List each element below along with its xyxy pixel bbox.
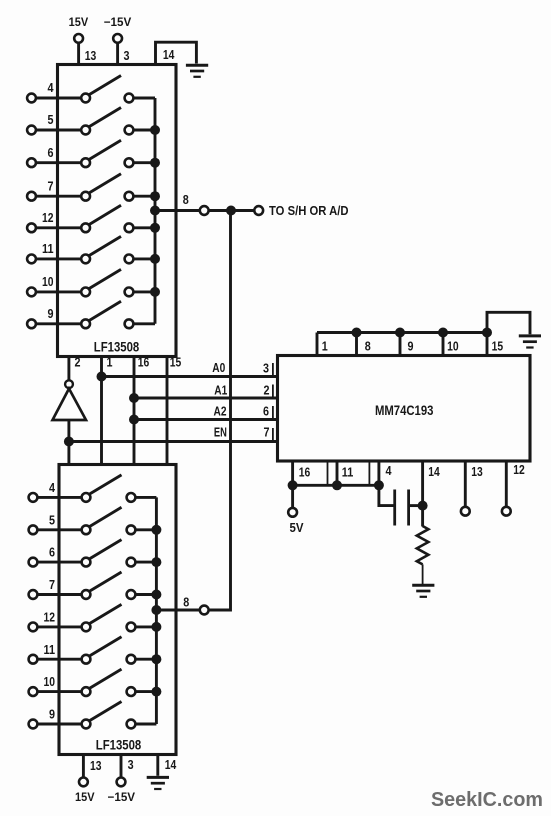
junction on U2 output bus xyxy=(151,654,161,664)
junction EN at inverter xyxy=(64,437,74,447)
svg-text:12: 12 xyxy=(513,462,525,477)
switch pole U1 channel 10 xyxy=(81,288,90,297)
svg-text:TO S/H OR A/D: TO S/H OR A/D xyxy=(269,203,349,218)
svg-text:16: 16 xyxy=(299,465,311,480)
U4 pin 11 stub xyxy=(336,461,339,485)
ground (U2 pin 14) xyxy=(147,777,169,789)
svg-text:15V: 15V xyxy=(69,15,89,29)
terminal 15V (U1 pin 13) xyxy=(74,34,83,43)
wire net A1 xyxy=(134,397,278,400)
wire U2 pin 8 output xyxy=(156,609,200,612)
svg-text:15V: 15V xyxy=(75,790,95,804)
wire U4 supply bus xyxy=(293,484,379,487)
switch pole U1 channel 7 xyxy=(81,192,90,201)
wire resistor to ground xyxy=(422,564,424,584)
wire U1 channel 10 input xyxy=(36,290,82,293)
wire U1 pin 1 to U2 pin 1 xyxy=(100,357,103,465)
junction on U2 output bus xyxy=(151,590,161,600)
wire U1 channel 9 to output bus xyxy=(133,322,155,325)
wire U2 channel 6 to output bus xyxy=(135,561,156,564)
svg-text:10: 10 xyxy=(44,674,56,689)
U4 pin 6 tick xyxy=(272,406,274,419)
terminal −15V (U2 pin 3) xyxy=(117,778,126,787)
switch throw U1 channel 9 xyxy=(125,319,134,328)
switch pole U1 channel 9 xyxy=(81,319,90,328)
switch arm U2 channel 9 xyxy=(89,702,121,721)
terminal U4 pin 13 xyxy=(461,507,470,516)
switch throw U2 channel 7 xyxy=(127,590,136,599)
U2 channel 12 input terminal xyxy=(29,623,38,632)
svg-text:5V: 5V xyxy=(290,520,304,535)
junction U4 pin 8 xyxy=(352,328,362,338)
wire U2 channel 4 to output bus xyxy=(135,496,156,499)
wire U2 output bus xyxy=(155,497,158,724)
svg-text:9: 9 xyxy=(408,339,414,354)
wire U4 pin 15 to ground xyxy=(487,312,530,334)
switch arm U2 channel 5 xyxy=(89,507,121,526)
U2 channel 5 input terminal xyxy=(29,525,38,534)
switch throw U1 channel 6 xyxy=(125,158,134,167)
switch throw U1 channel 5 xyxy=(125,126,134,135)
terminal U4 pin 12 xyxy=(502,507,511,516)
wire output to terminal xyxy=(209,209,255,212)
node on output wire xyxy=(200,206,209,215)
terminal 5V xyxy=(288,508,297,517)
switch arm U1 channel 9 xyxy=(89,301,121,320)
junction on U1 output bus xyxy=(150,223,160,233)
svg-text:8: 8 xyxy=(183,192,189,207)
U4 pin 3 tick xyxy=(272,363,274,376)
switch pole U2 channel 4 xyxy=(82,493,91,502)
U2 channel 6 input terminal xyxy=(29,558,38,567)
switch pole U1 channel 4 xyxy=(81,94,90,103)
wire U4 top bus xyxy=(317,331,487,334)
wire U1 channel 7 input xyxy=(36,195,82,198)
svg-text:16: 16 xyxy=(138,354,150,369)
switch throw U1 channel 10 xyxy=(125,288,134,297)
svg-text:EN: EN xyxy=(214,425,227,440)
svg-text:4: 4 xyxy=(48,80,55,95)
junction A2 tap xyxy=(129,415,139,425)
junction on U2 output bus xyxy=(151,557,161,567)
junction on U1 output bus xyxy=(150,125,160,135)
U1 channel 4 input terminal xyxy=(27,94,36,103)
svg-text:6: 6 xyxy=(263,404,269,419)
svg-text:3: 3 xyxy=(128,757,134,772)
junction on U2 output bus xyxy=(151,687,161,697)
U2 channel 11 input terminal xyxy=(29,655,38,664)
wire U2 channel 11 input xyxy=(37,658,82,661)
U1 pin 3 stub xyxy=(116,43,119,66)
switch arm U2 channel 7 xyxy=(89,572,121,591)
junction on U2 output bus xyxy=(151,525,161,535)
switch arm U1 channel 10 xyxy=(89,269,121,288)
switch arm U1 channel 6 xyxy=(89,140,121,159)
svg-text:A2: A2 xyxy=(214,403,227,418)
svg-text:15: 15 xyxy=(492,339,504,354)
U4 pin 14 stub xyxy=(421,461,424,527)
svg-text:3: 3 xyxy=(124,48,130,63)
switch pole U1 channel 12 xyxy=(81,223,90,232)
U1 channel 9 input terminal xyxy=(27,319,36,328)
wire U1 pin 16 to U2 pin 16 xyxy=(133,357,136,465)
svg-text:9: 9 xyxy=(49,707,55,722)
junction A0 tap xyxy=(97,372,107,382)
U4 pin 10 stub xyxy=(442,333,445,358)
U4 unused pin tick b xyxy=(368,463,370,486)
switch throw U2 channel 5 xyxy=(127,525,136,534)
junction U2 output tap xyxy=(151,605,161,615)
U4 pin 2 tick xyxy=(272,385,274,398)
switch pole U2 channel 6 xyxy=(82,558,91,567)
wire U1 channel 5 to output bus xyxy=(133,129,155,132)
svg-text:−15V: −15V xyxy=(104,15,132,29)
svg-text:1: 1 xyxy=(322,339,328,354)
wire U2 channel 6 input xyxy=(37,561,82,564)
switch pole U2 channel 5 xyxy=(82,525,91,534)
switch throw U1 channel 12 xyxy=(125,223,134,232)
U2 channel 10 input terminal xyxy=(29,687,38,696)
wire U2 channel 9 input xyxy=(37,723,82,726)
wire U2 channel 10 input xyxy=(37,690,82,693)
U2 channel 7 input terminal xyxy=(29,590,38,599)
wire net A0 xyxy=(102,375,278,378)
wire U1 channel 6 input xyxy=(36,161,82,164)
junction U4 pin 4 xyxy=(374,480,384,490)
ground (U4 pin 15) xyxy=(519,336,541,348)
junction on U1 output bus xyxy=(150,287,160,297)
svg-text:SeekIC.com: SeekIC.com xyxy=(431,788,543,811)
wire net EN xyxy=(69,440,278,443)
svg-text:MM74C193: MM74C193 xyxy=(375,402,434,418)
svg-text:7: 7 xyxy=(48,178,54,193)
junction on U1 output bus xyxy=(150,158,160,168)
U4 unused pin tick a xyxy=(327,463,329,486)
mux IC U2 LF13508 (lower) body xyxy=(59,465,176,755)
switch throw U1 channel 11 xyxy=(125,255,134,264)
U2 channel 9 input terminal xyxy=(29,720,38,729)
switch pole U2 channel 11 xyxy=(82,655,91,664)
wire U2 channel 9 to output bus xyxy=(135,723,156,726)
wire U2 channel 12 to output bus xyxy=(135,625,156,628)
svg-text:6: 6 xyxy=(48,145,54,160)
U1 channel 12 input terminal xyxy=(27,223,36,232)
wire U1 pin 14 to ground xyxy=(156,42,197,66)
switch throw U2 channel 4 xyxy=(127,493,136,502)
inverter U3 bubble xyxy=(65,380,73,388)
switch pole U2 channel 12 xyxy=(82,623,91,632)
U1 channel 10 input terminal xyxy=(27,288,36,297)
svg-text:10: 10 xyxy=(42,274,54,289)
wire U1 pin 8 output xyxy=(155,209,200,212)
capacitor C1 left plate xyxy=(393,490,396,526)
svg-text:LF13508: LF13508 xyxy=(94,339,140,355)
wire capacitor to pin 14 xyxy=(409,504,423,507)
svg-text:9: 9 xyxy=(48,306,54,321)
wire lower mux output to S/H node xyxy=(209,211,231,611)
junction on U1 output bus xyxy=(150,254,160,264)
wire net A2 xyxy=(134,418,278,421)
wire U1 channel 7 to output bus xyxy=(133,195,155,198)
wire U1 channel 5 input xyxy=(36,129,82,132)
switch arm U1 channel 7 xyxy=(89,174,121,193)
junction U4 pin 10 xyxy=(438,328,448,338)
junction A1 tap xyxy=(129,393,139,403)
wire U2 channel 11 to output bus xyxy=(135,658,156,661)
svg-text:8: 8 xyxy=(365,339,371,354)
switch pole U2 channel 10 xyxy=(82,687,91,696)
svg-text:14: 14 xyxy=(428,464,440,479)
node on U2 output wire xyxy=(200,606,209,615)
svg-text:7: 7 xyxy=(264,425,270,440)
U2 channel 4 input terminal xyxy=(29,493,38,502)
switch arm U1 channel 11 xyxy=(89,236,121,255)
U4 pin 16 stub xyxy=(291,461,294,508)
wire U2 channel 5 input xyxy=(37,528,82,531)
switch arm U1 channel 5 xyxy=(89,108,121,127)
wire U1 channel 12 input xyxy=(36,226,82,229)
svg-text:12: 12 xyxy=(42,210,54,225)
svg-text:4: 4 xyxy=(386,463,393,478)
junction U4 pin 14 xyxy=(418,501,428,511)
switch throw U2 channel 6 xyxy=(127,558,136,567)
switch throw U2 channel 11 xyxy=(127,655,136,664)
svg-text:5: 5 xyxy=(48,112,54,127)
svg-text:2: 2 xyxy=(264,383,270,398)
switch throw U2 channel 12 xyxy=(127,623,136,632)
U1 channel 7 input terminal xyxy=(27,192,36,201)
U4 pin 9 stub xyxy=(399,333,402,358)
wire U1 pin 2 stub xyxy=(67,357,70,381)
wire U1 channel 4 input xyxy=(36,97,82,100)
ground (below R1) xyxy=(412,585,434,597)
svg-text:13: 13 xyxy=(90,758,102,773)
U2 pin 13 stub xyxy=(82,755,85,778)
wire U1 channel 10 to output bus xyxy=(133,290,155,293)
switch pole U2 channel 7 xyxy=(82,590,91,599)
switch pole U1 channel 6 xyxy=(81,158,90,167)
wire U1 output bus xyxy=(154,98,157,324)
switch throw U2 channel 10 xyxy=(127,687,136,696)
switch arm U2 channel 10 xyxy=(89,669,121,688)
wire U2 channel 5 to output bus xyxy=(135,528,156,531)
svg-text:1: 1 xyxy=(107,354,113,369)
wire U1 channel 11 input xyxy=(36,257,82,260)
svg-text:14: 14 xyxy=(163,47,175,62)
junction U4 pin 9 xyxy=(395,328,405,338)
switch throw U1 channel 4 xyxy=(125,94,134,103)
svg-text:−15V: −15V xyxy=(108,790,136,804)
U4 pin 8 stub xyxy=(355,333,358,358)
terminal TO S/H OR A/D xyxy=(254,206,263,215)
switch pole U2 channel 9 xyxy=(82,720,91,729)
switch throw U2 channel 9 xyxy=(127,720,136,729)
switch arm U1 channel 12 xyxy=(89,205,121,224)
junction on U1 output bus xyxy=(150,191,160,201)
svg-text:11: 11 xyxy=(44,642,56,657)
wire U1 channel 4 to output bus xyxy=(133,97,155,100)
junction on U2 output bus xyxy=(151,622,161,632)
wire U1 pin 15 to U2 pin 15 xyxy=(166,357,169,465)
wire U1 channel 12 to output bus xyxy=(133,226,155,229)
switch arm U1 channel 4 xyxy=(89,76,121,95)
switch pole U1 channel 11 xyxy=(81,255,90,264)
junction U1 output tap xyxy=(150,206,160,216)
svg-text:A1: A1 xyxy=(214,383,227,398)
svg-text:15: 15 xyxy=(170,354,182,369)
svg-text:2: 2 xyxy=(75,354,81,369)
junction U4 pin 16 xyxy=(288,480,298,490)
switch arm U2 channel 11 xyxy=(89,637,121,656)
terminal 15V (U2 pin 13) xyxy=(79,778,88,787)
wire U4 pin 4 to capacitor xyxy=(379,461,394,506)
switch pole U1 channel 5 xyxy=(81,126,90,135)
counter IC U4 MM74C193 body xyxy=(278,356,531,462)
svg-text:13: 13 xyxy=(471,464,483,479)
U4 pin 15 stub xyxy=(486,333,489,358)
wire U2 channel 7 to output bus xyxy=(135,593,156,596)
U4 pin 7 tick xyxy=(272,428,274,441)
U4 pin 13 stub xyxy=(464,461,467,507)
junction U4 pin 15 xyxy=(482,328,492,338)
wire U2 channel 7 input xyxy=(37,593,82,596)
junction output to lower mux xyxy=(226,206,236,216)
U2 pin 3 stub xyxy=(120,755,123,778)
wire U1 channel 6 to output bus xyxy=(133,161,155,164)
resistor R1 xyxy=(417,526,429,564)
svg-text:5: 5 xyxy=(49,512,55,527)
U1 channel 5 input terminal xyxy=(27,126,36,135)
capacitor C1 right plate xyxy=(407,490,410,526)
wire U1 channel 9 input xyxy=(36,322,82,325)
switch throw U1 channel 7 xyxy=(125,192,134,201)
svg-text:11: 11 xyxy=(342,465,354,480)
svg-text:LF13508: LF13508 xyxy=(96,737,142,753)
svg-text:11: 11 xyxy=(42,241,54,256)
svg-text:14: 14 xyxy=(165,757,177,772)
svg-text:8: 8 xyxy=(183,595,189,610)
op-amp/mux IC U1 LF13508 (upper) body xyxy=(58,65,177,357)
svg-text:7: 7 xyxy=(49,577,55,592)
U1 pin 13 stub xyxy=(77,43,80,66)
U1 channel 6 input terminal xyxy=(27,158,36,167)
junction U4 pin 11 xyxy=(332,480,342,490)
svg-text:10: 10 xyxy=(447,339,459,354)
terminal −15V (U1 pin 3) xyxy=(113,34,122,43)
U1 channel 11 input terminal xyxy=(27,255,36,264)
switch arm U2 channel 4 xyxy=(89,475,121,494)
svg-text:12: 12 xyxy=(44,610,56,625)
U4 pin 12 stub xyxy=(505,461,508,507)
U4 pin 1 stub xyxy=(316,333,319,358)
svg-text:6: 6 xyxy=(49,545,55,560)
svg-text:4: 4 xyxy=(49,480,56,495)
wire U1 channel 11 to output bus xyxy=(133,257,155,260)
wire U2 channel 12 input xyxy=(37,625,82,628)
wire U2 channel 4 input xyxy=(37,496,82,499)
switch arm U2 channel 12 xyxy=(89,604,121,623)
svg-text:3: 3 xyxy=(263,361,269,376)
svg-text:A0: A0 xyxy=(212,360,225,375)
wire U2 channel 10 to output bus xyxy=(135,690,156,693)
U2 pin 14 stub xyxy=(156,755,159,776)
switch arm U2 channel 6 xyxy=(89,540,121,559)
inverter U3 triangle xyxy=(53,389,87,420)
wire inverter to EN xyxy=(67,420,70,465)
svg-text:13: 13 xyxy=(85,48,97,63)
ground (U1 pin 14) xyxy=(186,65,208,77)
